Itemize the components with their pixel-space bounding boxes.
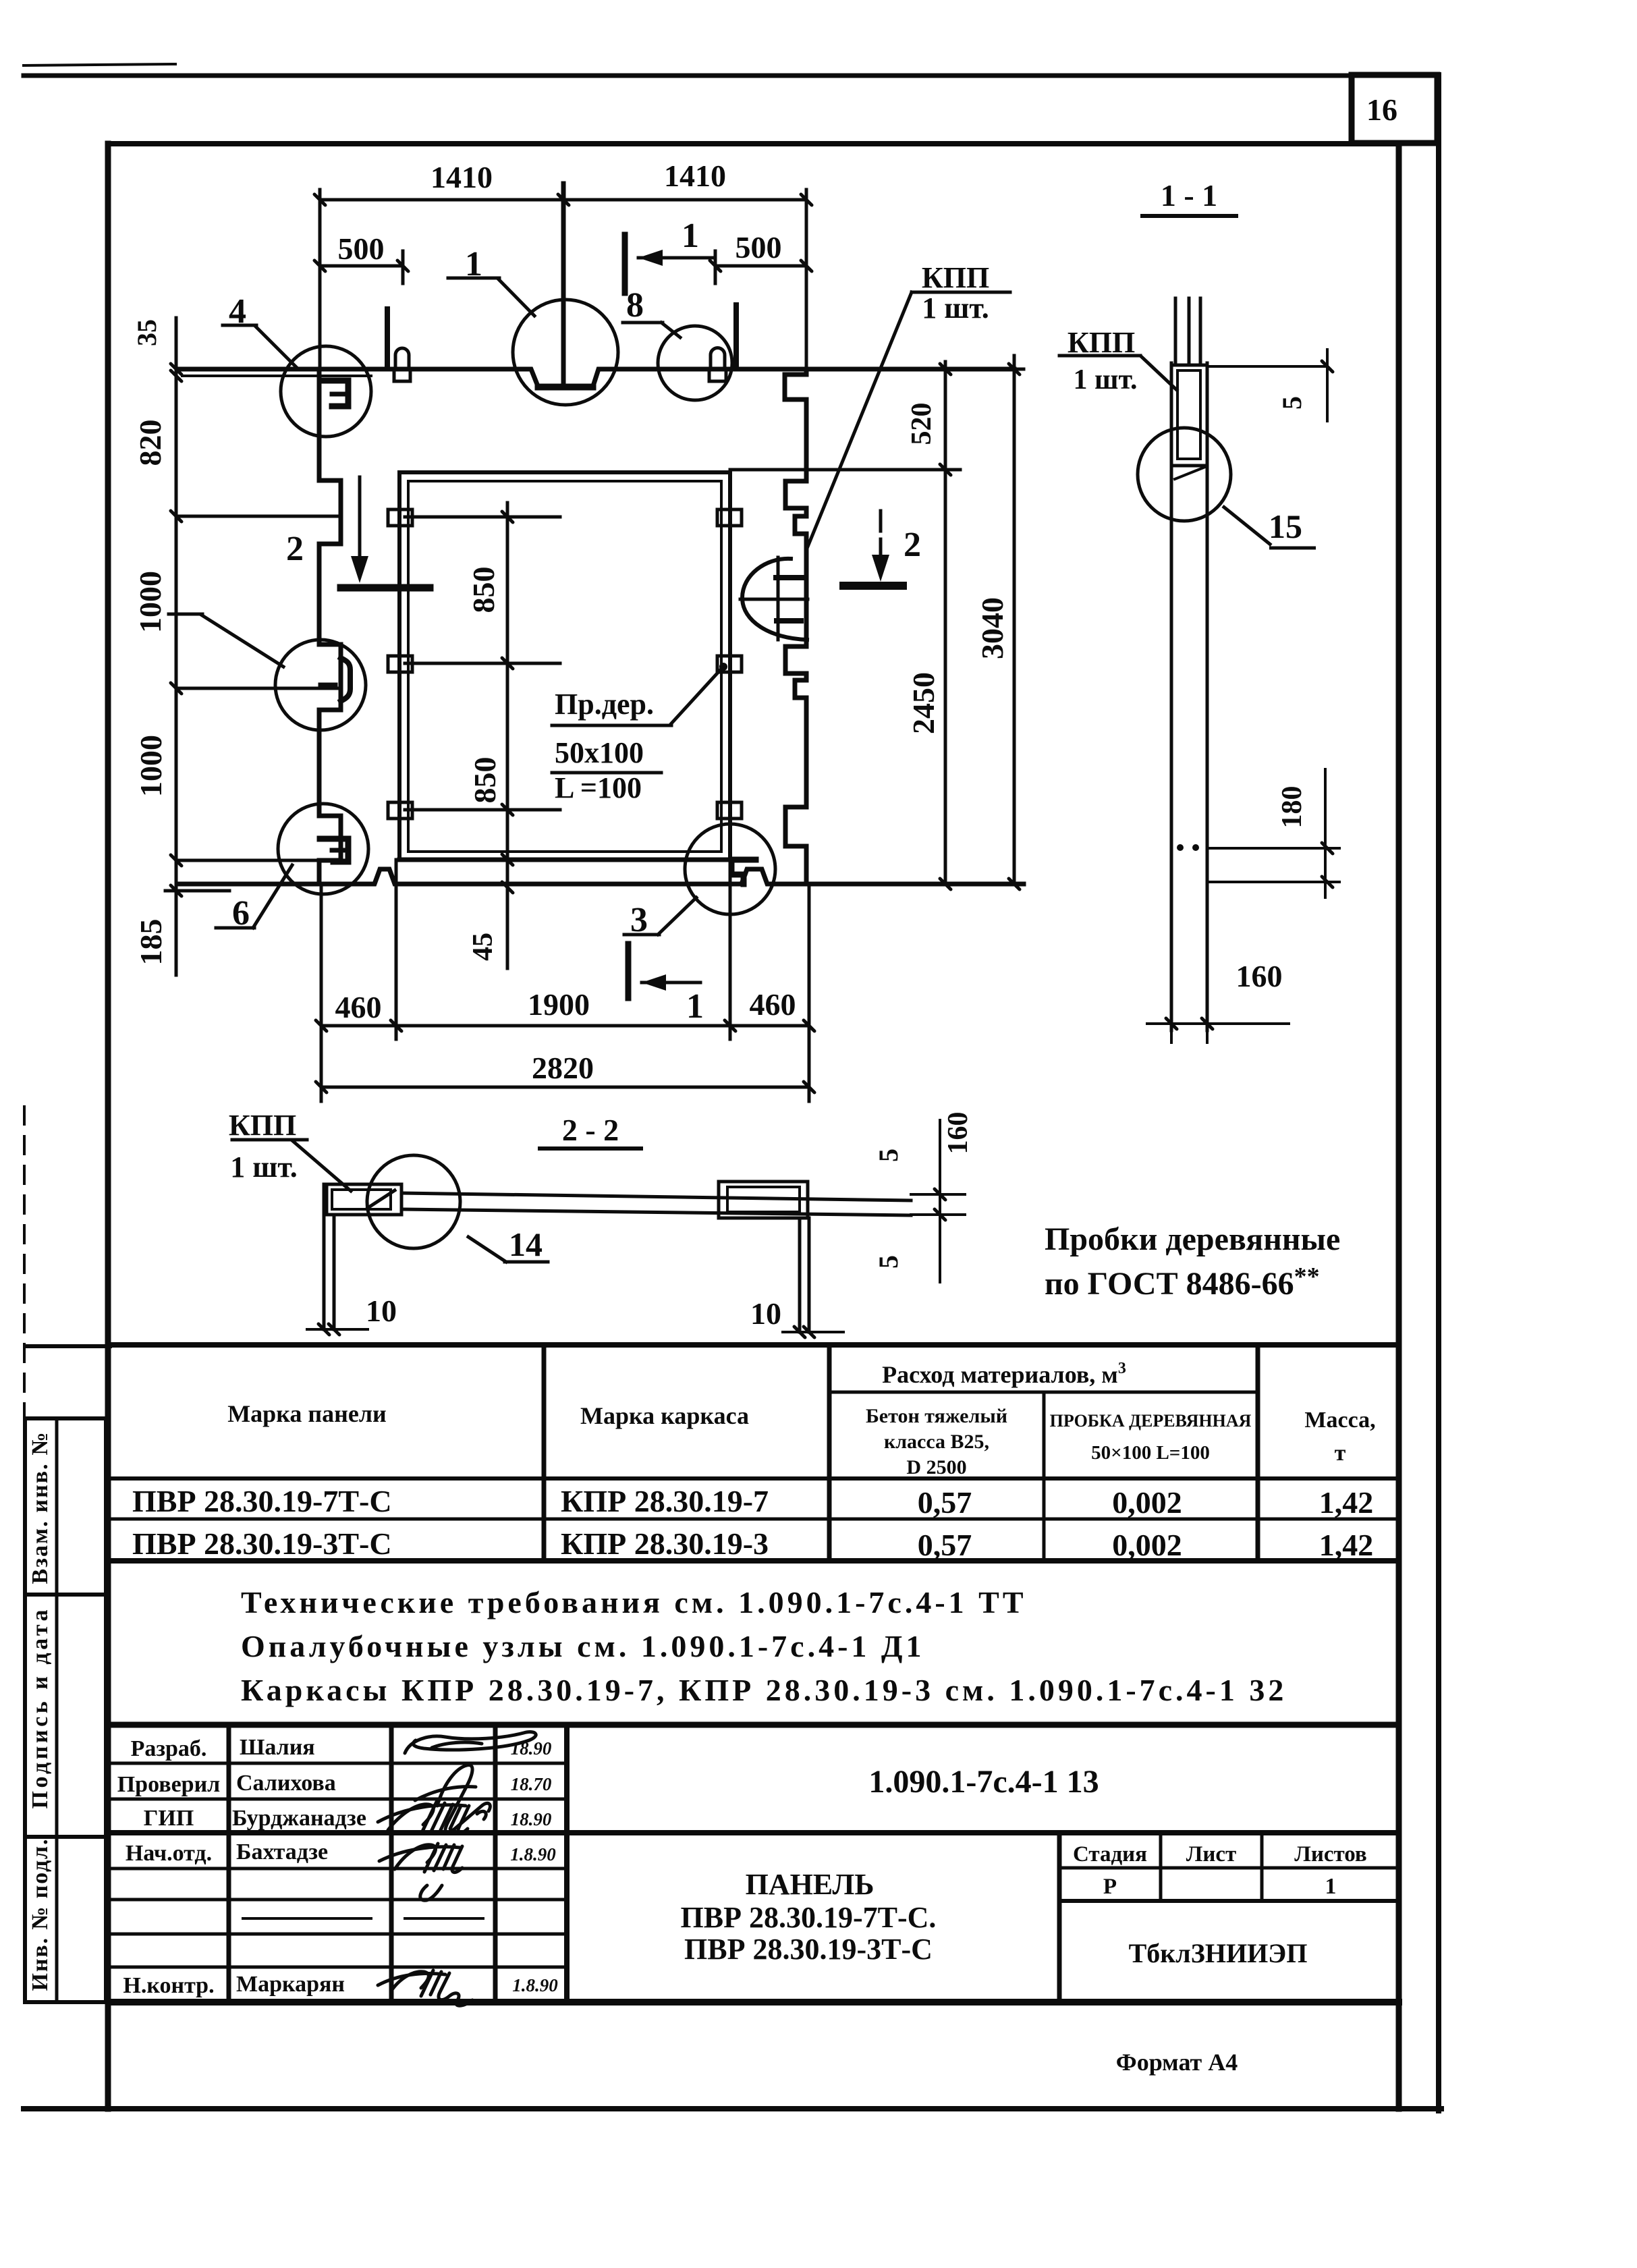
svg-text:1 шт.: 1 шт. bbox=[230, 1151, 297, 1184]
svg-text:1 шт.: 1 шт. bbox=[1074, 364, 1138, 395]
svg-text:ПВР 28.30.19-3Т-С: ПВР 28.30.19-3Т-С bbox=[132, 1526, 392, 1561]
svg-text:1410: 1410 bbox=[664, 159, 726, 193]
svg-text:1.090.1-7с.4-1 13: 1.090.1-7с.4-1 13 bbox=[868, 1764, 1099, 1800]
svg-text:ГИП: ГИП bbox=[144, 1806, 194, 1831]
svg-text:4: 4 bbox=[229, 292, 246, 331]
svg-text:1000: 1000 bbox=[134, 735, 168, 797]
svg-text:1: 1 bbox=[682, 217, 699, 255]
svg-text:Инв. № подл.: Инв. № подл. bbox=[28, 1840, 53, 1991]
svg-text:850: 850 bbox=[468, 757, 502, 804]
svg-text:8: 8 bbox=[626, 286, 644, 325]
svg-text:2450: 2450 bbox=[906, 672, 941, 734]
svg-text:1: 1 bbox=[465, 245, 482, 283]
svg-text:Масса,: Масса, bbox=[1304, 1408, 1375, 1433]
svg-text:18.90: 18.90 bbox=[511, 1809, 552, 1829]
svg-text:Пр.дер.: Пр.дер. bbox=[555, 688, 654, 721]
svg-text:Бахтадзе: Бахтадзе bbox=[236, 1840, 328, 1864]
svg-text:18.70: 18.70 bbox=[511, 1774, 552, 1794]
svg-text:ТбклЗНИИЭП: ТбклЗНИИЭП bbox=[1129, 1938, 1308, 1968]
svg-text:6: 6 bbox=[232, 894, 250, 933]
svg-text:10: 10 bbox=[366, 1294, 397, 1328]
svg-text:50×100 L=100: 50×100 L=100 bbox=[1091, 1442, 1210, 1464]
svg-text:Нач.отд.: Нач.отд. bbox=[126, 1841, 212, 1866]
svg-text:0,002: 0,002 bbox=[1112, 1528, 1182, 1562]
svg-text:50х100: 50х100 bbox=[555, 736, 644, 769]
svg-text:1.8.90: 1.8.90 bbox=[512, 1975, 558, 1995]
svg-text:460: 460 bbox=[335, 990, 382, 1024]
svg-text:1000: 1000 bbox=[133, 571, 167, 633]
svg-text:Каркасы КПР 28.30.19-7, КПР 28: Каркасы КПР 28.30.19-7, КПР 28.30.19-3 с… bbox=[241, 1673, 1287, 1707]
svg-text:Шалия: Шалия bbox=[240, 1735, 315, 1760]
svg-text:1900: 1900 bbox=[528, 987, 590, 1022]
svg-text:т: т bbox=[1335, 1441, 1346, 1466]
svg-text:1 - 1: 1 - 1 bbox=[1161, 178, 1217, 213]
svg-text:1410: 1410 bbox=[431, 160, 493, 194]
svg-text:5: 5 bbox=[873, 1255, 904, 1269]
svg-text:500: 500 bbox=[338, 231, 385, 266]
svg-text:КПП: КПП bbox=[1067, 326, 1135, 359]
svg-text:Формат А4: Формат А4 bbox=[1116, 2049, 1238, 2076]
svg-text:1,42: 1,42 bbox=[1319, 1528, 1374, 1562]
svg-text:Салихова: Салихова bbox=[236, 1771, 336, 1796]
svg-text:3: 3 bbox=[630, 901, 648, 939]
svg-text:Листов: Листов bbox=[1294, 1842, 1367, 1866]
svg-text:КПП: КПП bbox=[229, 1109, 296, 1142]
svg-text:Марка каркаса: Марка каркаса bbox=[580, 1402, 749, 1429]
svg-text:Подпись и дата: Подпись и дата bbox=[28, 1610, 53, 1809]
svg-text:1,42: 1,42 bbox=[1319, 1485, 1374, 1520]
svg-text:15: 15 bbox=[1269, 507, 1302, 545]
svg-text:класса В25,: класса В25, bbox=[884, 1431, 989, 1453]
svg-text:16: 16 bbox=[1366, 92, 1397, 127]
svg-text:14: 14 bbox=[509, 1225, 543, 1263]
svg-text:185: 185 bbox=[134, 919, 168, 966]
svg-text:5: 5 bbox=[1277, 396, 1307, 410]
svg-text:18.90: 18.90 bbox=[511, 1738, 552, 1759]
svg-text:45: 45 bbox=[468, 933, 499, 961]
svg-text:Маркарян: Маркарян bbox=[236, 1972, 345, 1997]
svg-text:5: 5 bbox=[873, 1149, 904, 1162]
svg-text:Разраб.: Разраб. bbox=[131, 1736, 207, 1761]
svg-text:ПВР 28.30.19-3Т-С: ПВР 28.30.19-3Т-С bbox=[684, 1933, 933, 1966]
svg-text:1.8.90: 1.8.90 bbox=[510, 1844, 556, 1864]
svg-text:Н.контр.: Н.контр. bbox=[123, 1973, 214, 1998]
svg-text:180: 180 bbox=[1277, 786, 1308, 829]
svg-text:КПР 28.30.19-7: КПР 28.30.19-7 bbox=[561, 1484, 769, 1518]
svg-text:Пробки деревянные: Пробки деревянные bbox=[1045, 1221, 1340, 1257]
svg-text:Опалубочные узлы см. 1.090.1-7: Опалубочные узлы см. 1.090.1-7с.4-1 Д1 bbox=[241, 1629, 925, 1663]
svg-text:35: 35 bbox=[132, 319, 162, 346]
svg-text:2 - 2: 2 - 2 bbox=[562, 1113, 619, 1147]
svg-text:1: 1 bbox=[1325, 1874, 1337, 1899]
svg-text:по ГОСТ 8486-66**: по ГОСТ 8486-66** bbox=[1045, 1263, 1320, 1302]
svg-text:2820: 2820 bbox=[532, 1051, 594, 1085]
svg-text:0,57: 0,57 bbox=[918, 1528, 972, 1562]
svg-text:КПР 28.30.19-3: КПР 28.30.19-3 bbox=[561, 1526, 769, 1561]
svg-text:L =100: L =100 bbox=[555, 771, 642, 804]
svg-text:КПП: КПП bbox=[922, 261, 989, 294]
svg-text:1: 1 bbox=[686, 987, 704, 1026]
svg-text:520: 520 bbox=[906, 403, 937, 445]
svg-text:0,57: 0,57 bbox=[918, 1485, 972, 1520]
svg-text:Марка панели: Марка панели bbox=[227, 1400, 387, 1427]
svg-text:D 2500: D 2500 bbox=[906, 1456, 966, 1478]
svg-text:Технические требования см. 1.0: Технические требования см. 1.090.1-7с.4-… bbox=[241, 1585, 1027, 1620]
svg-text:1 шт.: 1 шт. bbox=[922, 292, 989, 325]
svg-text:2: 2 bbox=[904, 526, 921, 564]
svg-text:Бурджанадзе: Бурджанадзе bbox=[232, 1806, 366, 1831]
svg-text:Бетон тяжелый: Бетон тяжелый bbox=[866, 1405, 1007, 1427]
svg-text:2: 2 bbox=[286, 530, 304, 568]
svg-text:500: 500 bbox=[736, 230, 782, 265]
svg-text:Расход материалов, м3: Расход материалов, м3 bbox=[882, 1360, 1126, 1388]
svg-text:850: 850 bbox=[466, 567, 501, 613]
svg-text:Р: Р bbox=[1103, 1875, 1117, 1899]
svg-text:0,002: 0,002 bbox=[1112, 1485, 1182, 1520]
svg-text:160: 160 bbox=[943, 1112, 974, 1155]
svg-text:820: 820 bbox=[133, 420, 167, 466]
svg-text:Взам. инв. №: Взам. инв. № bbox=[28, 1433, 53, 1584]
svg-text:ПВР 28.30.19-7Т-С.: ПВР 28.30.19-7Т-С. bbox=[681, 1901, 937, 1934]
svg-text:3040: 3040 bbox=[975, 597, 1009, 659]
svg-text:ПВР 28.30.19-7Т-С: ПВР 28.30.19-7Т-С bbox=[132, 1484, 392, 1518]
svg-text:160: 160 bbox=[1236, 959, 1283, 993]
svg-text:10: 10 bbox=[750, 1296, 781, 1331]
svg-text:ПРОБКА ДЕРЕВЯННАЯ: ПРОБКА ДЕРЕВЯННАЯ bbox=[1050, 1411, 1252, 1431]
svg-text:Лист: Лист bbox=[1186, 1842, 1236, 1866]
svg-text:460: 460 bbox=[750, 987, 796, 1022]
svg-text:Проверил: Проверил bbox=[117, 1772, 221, 1797]
svg-text:ПАНЕЛЬ: ПАНЕЛЬ bbox=[746, 1868, 875, 1901]
svg-text:Стадия: Стадия bbox=[1073, 1842, 1147, 1866]
